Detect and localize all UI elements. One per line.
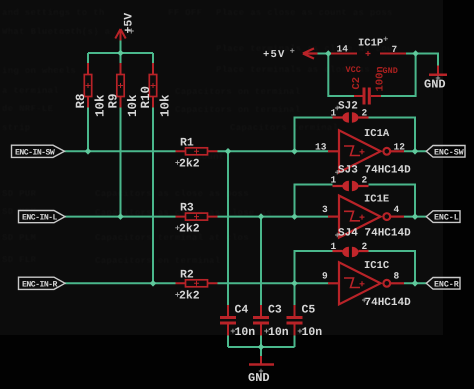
capacitor C3 bbox=[253, 305, 269, 336]
wire +5V stem bbox=[120, 41, 122, 54]
svg-text:Capacitors terminal: Capacitors terminal bbox=[230, 123, 339, 133]
svg-text:74HC14D: 74HC14D bbox=[365, 297, 412, 309]
svg-text:Capacitors on terminal: Capacitors on terminal bbox=[175, 87, 301, 97]
capacitor C2 bbox=[354, 88, 381, 105]
node gnd rail bbox=[258, 344, 265, 351]
wire row ENC-IN-R bbox=[65, 282, 176, 284]
wire C5 bottom bbox=[294, 336, 296, 348]
label R1 bbox=[175, 136, 200, 170]
wire IC1A out to flag bbox=[404, 150, 427, 152]
label R10 bbox=[139, 86, 173, 117]
svg-text:74HC14D: 74HC14D bbox=[365, 165, 412, 177]
svg-text:C2: C2 bbox=[351, 77, 363, 90]
label SJ3 bbox=[335, 165, 358, 177]
wire row ENC-IN-L bbox=[65, 216, 176, 218]
wire C2 right branch bbox=[371, 54, 416, 97]
svg-text:2: 2 bbox=[362, 108, 368, 119]
wire IC1E out to flag bbox=[404, 216, 427, 218]
flag ENC-R bbox=[426, 278, 460, 290]
flag ENC-IN-R bbox=[19, 277, 66, 289]
svg-text:SJ2: SJ2 bbox=[338, 101, 358, 113]
node R/C5/SJ4 bbox=[291, 280, 298, 287]
svg-text:C5: C5 bbox=[302, 304, 316, 317]
svg-text:VCC: VCC bbox=[346, 65, 361, 75]
wire SJ3 loop right bbox=[369, 185, 416, 217]
wire +5V rail top bbox=[88, 52, 153, 54]
wire row L after R3 bbox=[218, 216, 329, 218]
resistor R8 bbox=[84, 63, 91, 108]
resistor R10 bbox=[149, 63, 156, 108]
svg-text:de NRF-LE: de NRF-LE bbox=[2, 104, 54, 114]
svg-text:2k2: 2k2 bbox=[179, 157, 200, 170]
svg-text:74HC14D: 74HC14D bbox=[365, 228, 412, 240]
ground symbol bottom bbox=[249, 356, 274, 365]
wire ground rail bbox=[228, 346, 295, 348]
node L/SJ3 bbox=[291, 213, 298, 220]
svg-text:1: 1 bbox=[331, 241, 337, 252]
svg-text:R2: R2 bbox=[180, 268, 194, 281]
svg-text:SD FLR: SD FLR bbox=[2, 255, 37, 265]
svg-text:+5V: +5V bbox=[123, 13, 136, 34]
op-amp gate IC1E bbox=[328, 196, 404, 238]
node SW/SJ2 bbox=[291, 148, 298, 155]
svg-text:a terminal: a terminal bbox=[2, 86, 59, 96]
svg-text:ENC-IN-SW: ENC-IN-SW bbox=[15, 148, 55, 157]
wire C3 bottom bbox=[260, 336, 262, 348]
flag ENC-IN-SW bbox=[12, 145, 65, 157]
svg-text:IC1E: IC1E bbox=[364, 194, 389, 206]
solder jumper SJ4 bbox=[333, 247, 369, 257]
power part IC1P pins bbox=[303, 48, 406, 58]
wire IC1P pin7 to gnd corner bbox=[406, 54, 438, 66]
node R/R10 bbox=[150, 280, 157, 287]
wire SJ4 loop right bbox=[369, 251, 416, 283]
capacitor C4 bbox=[220, 305, 236, 336]
label R9 bbox=[107, 93, 141, 117]
wire R10 top bbox=[152, 53, 154, 63]
resistor R1 bbox=[176, 148, 218, 155]
wire C5 column bbox=[294, 283, 296, 305]
label R8 bbox=[74, 93, 108, 117]
svg-text:4: 4 bbox=[394, 204, 400, 215]
node IC1P left bbox=[325, 50, 332, 57]
label GND bottom bbox=[248, 369, 270, 385]
svg-text:2k2: 2k2 bbox=[179, 289, 200, 302]
label SJ4 bbox=[335, 228, 358, 240]
ground symbol top right bbox=[429, 66, 447, 75]
wire R8 bottom to net SW bbox=[87, 108, 89, 152]
svg-text:+5V: +5V bbox=[263, 49, 286, 61]
svg-text:3: 3 bbox=[322, 204, 328, 215]
wire +5V to IC1P pin14 bbox=[317, 53, 332, 55]
flag ENC-L bbox=[426, 211, 460, 223]
label SJ2 bbox=[335, 101, 358, 113]
wire R8 top bbox=[87, 53, 89, 63]
resistor R2 bbox=[176, 280, 218, 287]
wire SJ4 loop left bbox=[295, 251, 333, 283]
label C4 bbox=[231, 304, 256, 340]
svg-text:8: 8 bbox=[394, 271, 400, 282]
label 74HC14D for IC1C bbox=[362, 297, 411, 309]
svg-text:10n: 10n bbox=[302, 326, 323, 339]
node +5V rail bbox=[117, 50, 124, 57]
node L out bbox=[412, 213, 419, 220]
svg-text:1: 1 bbox=[331, 108, 337, 119]
svg-text:10k: 10k bbox=[159, 94, 173, 117]
label C3 bbox=[264, 304, 289, 340]
node SW/R8 bbox=[85, 148, 92, 155]
svg-text:ENC-R: ENC-R bbox=[434, 279, 460, 289]
label R2 bbox=[175, 268, 200, 302]
label R3 bbox=[175, 202, 200, 236]
node L/R9 bbox=[117, 213, 124, 220]
svg-text:Capacitors terminal at clos: Capacitors terminal at clos bbox=[95, 233, 249, 243]
wire IC1C out to flag bbox=[404, 282, 427, 284]
node SW out bbox=[412, 148, 419, 155]
wire row ENC-IN-SW bbox=[65, 150, 176, 152]
svg-text:IC1P: IC1P bbox=[358, 38, 383, 50]
svg-text:10n: 10n bbox=[235, 326, 256, 339]
svg-text:Count: Count bbox=[196, 152, 225, 162]
svg-text:R3: R3 bbox=[180, 202, 194, 215]
svg-text:1: 1 bbox=[331, 175, 337, 186]
svg-text:What Bluetooth(s) a: What Bluetooth(s) a bbox=[2, 27, 111, 37]
svg-text:100n: 100n bbox=[375, 66, 387, 91]
svg-text:FF OFF: FF OFF bbox=[168, 8, 202, 18]
svg-text:ENC-SW: ENC-SW bbox=[434, 147, 465, 157]
node L/C3 bbox=[258, 213, 265, 220]
svg-text:Capacitors as close as poss: Capacitors as close as poss bbox=[95, 189, 249, 199]
label +5V top bbox=[123, 13, 136, 34]
svg-text:strip: strip bbox=[2, 123, 31, 133]
svg-text:12: 12 bbox=[394, 142, 406, 153]
svg-text:ENC-L: ENC-L bbox=[434, 213, 459, 223]
label IC1P bbox=[358, 37, 388, 50]
wire SJ2 loop left bbox=[295, 118, 333, 152]
solder jumper SJ2 bbox=[333, 112, 369, 122]
svg-text:GND: GND bbox=[248, 371, 270, 385]
svg-text:10n: 10n bbox=[268, 326, 289, 339]
svg-text:IC1C: IC1C bbox=[364, 260, 390, 272]
wire C4 column bbox=[227, 151, 229, 305]
label +5V at IC1P bbox=[263, 49, 294, 62]
wire C2 left branch bbox=[328, 54, 354, 97]
node IC1P right bbox=[412, 50, 419, 57]
wire R9 top bbox=[120, 53, 122, 63]
svg-text:R8: R8 bbox=[74, 93, 88, 108]
wire SJ3 loop left bbox=[295, 185, 333, 217]
svg-text:2: 2 bbox=[362, 175, 368, 186]
label GND top right bbox=[424, 76, 446, 92]
supply +5V arrow top bbox=[115, 29, 125, 41]
op-amp gate IC1C bbox=[328, 262, 404, 304]
svg-text:SJ4: SJ4 bbox=[338, 228, 358, 240]
wire C4 bottom bbox=[227, 336, 229, 348]
svg-text:IC1A: IC1A bbox=[364, 128, 390, 140]
svg-text:C4: C4 bbox=[235, 304, 249, 317]
node SW/C4 bbox=[225, 148, 232, 155]
svg-text:13: 13 bbox=[315, 142, 327, 153]
svg-text:10k: 10k bbox=[126, 94, 140, 117]
svg-text:GND: GND bbox=[424, 78, 446, 92]
svg-text:2k2: 2k2 bbox=[179, 223, 200, 236]
solder jumper SJ3 bbox=[333, 181, 369, 191]
svg-text:7: 7 bbox=[392, 44, 398, 55]
node R out bbox=[412, 280, 419, 287]
svg-text:Place as close as count as pos: Place as close as count as poss bbox=[216, 8, 393, 18]
svg-text:14: 14 bbox=[337, 44, 349, 55]
svg-text:10k: 10k bbox=[94, 94, 108, 117]
flag ENC-IN-L bbox=[19, 211, 66, 223]
wire R10 bottom to net R bbox=[152, 108, 154, 284]
svg-text:9: 9 bbox=[322, 271, 328, 282]
svg-text:R10: R10 bbox=[139, 86, 153, 109]
svg-text:Capacitors on terminal: Capacitors on terminal bbox=[175, 105, 301, 115]
svg-text:R1: R1 bbox=[180, 136, 194, 149]
wire C3 column bbox=[260, 217, 262, 305]
svg-text:SJ3: SJ3 bbox=[338, 165, 358, 177]
wire row R after R2 bbox=[218, 282, 329, 284]
faint background text layer bbox=[2, 8, 398, 266]
svg-text:ing on wheels: ing on wheels bbox=[2, 66, 76, 76]
svg-text:R9: R9 bbox=[107, 93, 121, 108]
wire row SW after R1 bbox=[218, 150, 329, 152]
svg-text:ENC-IN-R: ENC-IN-R bbox=[22, 280, 58, 289]
svg-text:SD PLM: SD PLM bbox=[2, 233, 36, 243]
resistor R3 bbox=[176, 213, 218, 220]
svg-text:2: 2 bbox=[362, 241, 368, 252]
svg-text:and settings to th: and settings to th bbox=[2, 8, 105, 18]
wire gnd stem bottom bbox=[260, 347, 262, 356]
svg-text:C3: C3 bbox=[268, 304, 282, 317]
flag ENC-SW bbox=[426, 146, 465, 158]
capacitor C5 bbox=[287, 305, 303, 336]
op-amp gate IC1A bbox=[328, 130, 404, 172]
svg-text:SD PUR: SD PUR bbox=[2, 189, 37, 199]
wire R9 bottom to net L bbox=[120, 108, 122, 217]
label C5 bbox=[298, 304, 323, 340]
wire SJ2 loop right bbox=[369, 118, 416, 152]
resistor R9 bbox=[117, 63, 124, 108]
svg-text:Capacitors en terminal: Capacitors en terminal bbox=[95, 256, 221, 266]
svg-text:ENC-IN-L: ENC-IN-L bbox=[22, 214, 58, 223]
